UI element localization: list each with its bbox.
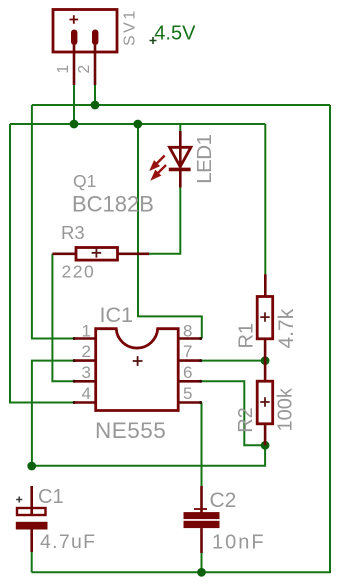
svg-text:R1: R1 (236, 323, 258, 349)
svg-text:100k: 100k (275, 387, 297, 431)
svg-text:4.7k: 4.7k (275, 308, 298, 348)
svg-text:220: 220 (62, 262, 96, 282)
svg-text:5: 5 (183, 384, 192, 403)
svg-text:8: 8 (183, 321, 192, 340)
svg-text:10nF: 10nF (212, 531, 266, 553)
svg-text:C1: C1 (38, 486, 64, 508)
svg-text:R2: R2 (235, 407, 257, 433)
svg-text:4.7uF: 4.7uF (40, 531, 96, 553)
svg-text:6: 6 (183, 363, 192, 382)
svg-text:7: 7 (183, 342, 192, 361)
svg-text:4.5V: 4.5V (154, 23, 196, 45)
svg-text:IC1: IC1 (100, 303, 133, 327)
svg-text:R3: R3 (61, 222, 85, 243)
svg-text:1: 1 (55, 65, 72, 74)
svg-text:BC182B: BC182B (72, 192, 154, 217)
svg-text:1: 1 (82, 321, 91, 340)
svg-text:2: 2 (76, 65, 93, 74)
svg-text:2: 2 (82, 342, 91, 361)
svg-text:C2: C2 (210, 489, 237, 512)
svg-text:NE555: NE555 (95, 418, 166, 443)
svg-text:SV1: SV1 (122, 8, 139, 46)
svg-text:Q1: Q1 (73, 171, 96, 191)
svg-text:LED1: LED1 (193, 134, 216, 183)
svg-text:4: 4 (82, 384, 91, 403)
svg-text:3: 3 (82, 363, 91, 382)
